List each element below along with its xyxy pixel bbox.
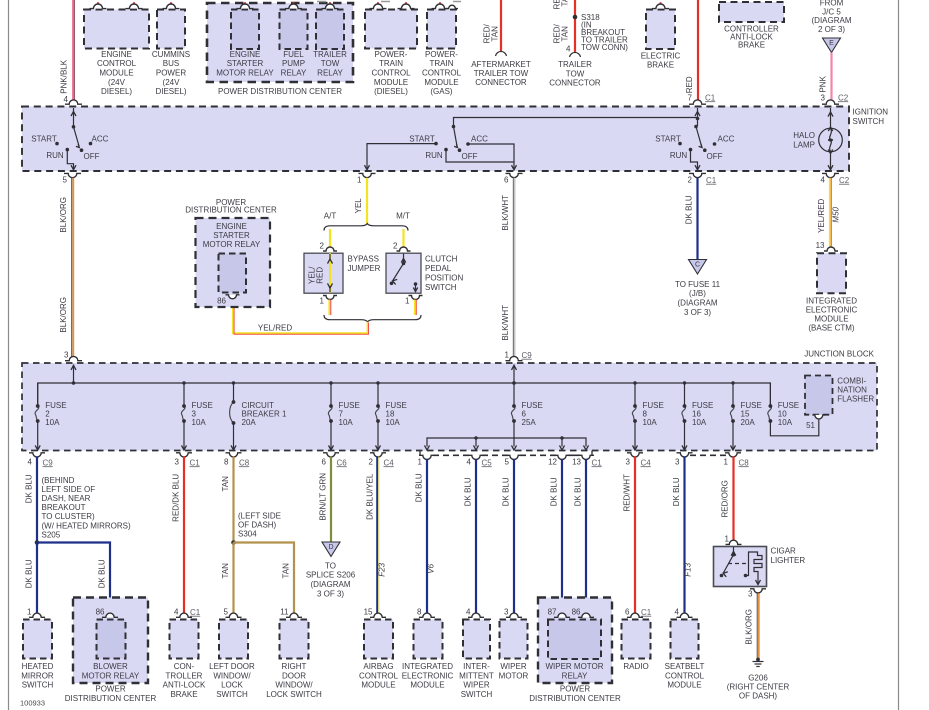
svg-text:1: 1	[725, 534, 730, 543]
page border left	[8, 0, 10, 710]
junction block bottom pin 6 C6 at x=331	[322, 453, 348, 468]
powertrain control module (diesel) box	[365, 2, 417, 97]
fuel pump relay (top PDC)	[280, 2, 308, 77]
svg-text:STARTER: STARTER	[227, 59, 264, 68]
svg-text:CONTROL: CONTROL	[665, 671, 705, 680]
clutch pedal position switch label	[425, 254, 463, 292]
svg-text:RELAY: RELAY	[562, 671, 588, 680]
svg-text:(W/ HEATED MIRRORS): (W/ HEATED MIRRORS)	[42, 521, 132, 530]
svg-text:10A: 10A	[778, 418, 793, 427]
svg-text:WINDOW/: WINDOW/	[213, 671, 251, 680]
svg-text:TAN: TAN	[561, 0, 570, 7]
right door window/lock switch box	[266, 607, 322, 699]
svg-text:SWITCH: SWITCH	[425, 283, 457, 292]
fuse 6 25A	[511, 381, 542, 438]
svg-text:ACC: ACC	[92, 135, 109, 144]
svg-text:JUMPER: JUMPER	[348, 264, 381, 273]
svg-text:MOTOR: MOTOR	[499, 671, 529, 680]
svg-text:SWITCH: SWITCH	[22, 681, 54, 690]
clutch pedal position switch contacts	[390, 254, 418, 293]
cigar lighter pin 1	[725, 534, 742, 544]
svg-text:RADIO: RADIO	[623, 662, 648, 671]
intermittent wiper switch box	[459, 607, 494, 699]
svg-text:DK BLU: DK BLU	[574, 477, 583, 506]
label DK BLU (pin 4 C9)	[25, 474, 34, 503]
label PNK	[819, 75, 828, 92]
svg-text:(RIGHT CENTER: (RIGHT CENTER	[727, 683, 790, 692]
wire DK BLU junction pin 13 C1 to wiper motor relay 86	[585, 459, 587, 615]
svg-text:ENGINE: ENGINE	[230, 50, 261, 59]
aftermarket trailer tow connector label	[471, 60, 531, 87]
wire TAN splice S304 branch to right door switch	[234, 543, 295, 616]
svg-text:LEFT DOOR: LEFT DOOR	[209, 662, 255, 671]
svg-text:3: 3	[64, 350, 69, 359]
wiper motor relay box	[545, 607, 603, 680]
wiper motor box	[499, 607, 529, 680]
svg-text:(DIAGRAM: (DIAGRAM	[311, 580, 351, 589]
svg-text:DISTRIBUTION CENTER: DISTRIBUTION CENTER	[65, 694, 157, 703]
svg-text:2: 2	[369, 457, 374, 466]
svg-text:3: 3	[748, 589, 753, 598]
clutch pedal position switch box	[386, 253, 421, 293]
bypass jumper internal wire	[328, 253, 333, 293]
ignition switch contact set 1 (left)	[31, 108, 108, 170]
heated mirror switch box	[21, 607, 54, 689]
svg-text:TAN: TAN	[491, 26, 500, 42]
svg-text:C1: C1	[190, 458, 201, 467]
svg-text:AIRBAG: AIRBAG	[363, 662, 393, 671]
svg-text:3: 3	[175, 457, 180, 466]
svg-text:DIESEL): DIESEL)	[101, 87, 132, 96]
svg-text:86: 86	[96, 607, 105, 616]
pin 86 label (starter relay)	[217, 297, 226, 306]
engine starter motor relay (top PDC)	[216, 2, 274, 77]
svg-text:C9: C9	[522, 351, 533, 360]
labels BLK/ORG	[59, 197, 68, 333]
svg-text:LAMP: LAMP	[793, 141, 815, 150]
svg-text:C4: C4	[641, 458, 652, 467]
wire RED/WHT junction pin 3 C4 to radio	[634, 457, 636, 616]
svg-text:OF DASH): OF DASH)	[739, 692, 778, 701]
label DK BLU (pin 13 C1)	[574, 477, 583, 506]
junction block bottom pin 1 C8 at x=733	[724, 453, 750, 468]
label BLK/ORG (cigar lighter)	[745, 609, 754, 645]
svg-text:2: 2	[320, 241, 325, 250]
svg-text:ELECTRONIC: ELECTRONIC	[402, 671, 454, 680]
svg-text:CON-: CON-	[174, 662, 195, 671]
wire DK BLU junction pin 1 to IEM	[426, 459, 428, 615]
svg-text:6: 6	[625, 607, 630, 616]
svg-text:BRN/LT GRN: BRN/LT GRN	[319, 473, 328, 521]
wire DK BLU junction pin 4 C9 to splice S205	[36, 457, 38, 543]
svg-text:TOW: TOW	[321, 59, 340, 68]
svg-text:RED/ORG: RED/ORG	[721, 480, 730, 517]
svg-text:MOTOR RELAY: MOTOR RELAY	[203, 240, 261, 249]
svg-text:OFF: OFF	[707, 152, 723, 161]
svg-text:3: 3	[504, 607, 509, 616]
label DK BLU (pin 4 C5)	[464, 477, 473, 506]
svg-text:POSITION: POSITION	[425, 273, 463, 282]
wire BRN/LT GRN junction pin 6 C6 to connector D	[330, 457, 332, 543]
svg-text:C: C	[695, 262, 700, 269]
svg-text:BUS: BUS	[163, 59, 179, 68]
svg-text:ELECTRONIC: ELECTRONIC	[806, 305, 858, 314]
svg-text:BRAKE: BRAKE	[647, 61, 674, 70]
svg-text:TRAILER TOW: TRAILER TOW	[474, 69, 529, 78]
svg-text:WIPER MOTOR: WIPER MOTOR	[545, 662, 603, 671]
wire DK BLU junction pin 12 to wiper motor relay 87	[561, 459, 563, 615]
integrated electronic module (base ctm) box	[806, 253, 858, 332]
power distribution center (middle) box	[185, 198, 277, 307]
ignition pin 5 (bottom)	[63, 173, 81, 184]
ignition switch contact set 2 (middle)	[365, 118, 698, 170]
svg-text:C1: C1	[641, 608, 652, 617]
svg-text:RELAY: RELAY	[317, 69, 343, 78]
svg-text:6: 6	[504, 175, 509, 184]
svg-text:ACC: ACC	[718, 135, 735, 144]
svg-text:CUMMINS: CUMMINS	[152, 50, 190, 59]
svg-text:BLK/WHT: BLK/WHT	[501, 195, 510, 231]
svg-text:4: 4	[675, 607, 680, 616]
fuse 6 distribution sub-bus	[425, 436, 589, 450]
svg-text:BRAKE: BRAKE	[738, 41, 765, 50]
label YEL/RED inside bypass jumper	[308, 266, 325, 284]
wire DK BLU splice S205 branch to blower motor relay	[37, 543, 110, 616]
bypass jumper pin 2	[320, 241, 337, 251]
svg-text:4: 4	[467, 457, 472, 466]
svg-text:RUN: RUN	[46, 151, 64, 160]
svg-text:MODULE: MODULE	[410, 681, 444, 690]
svg-text:4: 4	[466, 607, 471, 616]
svg-text:C1: C1	[190, 608, 201, 617]
svg-text:MODULE: MODULE	[814, 314, 848, 323]
svg-text:RUN: RUN	[670, 151, 688, 160]
ignition switch box	[22, 107, 888, 172]
svg-text:(24V: (24V	[163, 78, 181, 87]
svg-text:BLK/WHT: BLK/WHT	[501, 305, 510, 341]
svg-text:BLK/ORG: BLK/ORG	[59, 297, 68, 333]
svg-text:4: 4	[64, 95, 69, 104]
svg-text:FLASHER: FLASHER	[837, 394, 874, 403]
junction block pin 3 (top)	[64, 350, 82, 360]
svg-text:10A: 10A	[339, 418, 354, 427]
svg-text:MOTOR RELAY: MOTOR RELAY	[216, 69, 274, 78]
wire BLK/ORG ignition pin5 to junction pin3	[72, 178, 74, 359]
labels BLK/WHT	[501, 195, 510, 341]
svg-text:BRAKE: BRAKE	[170, 690, 197, 699]
svg-text:C5: C5	[482, 458, 493, 467]
svg-text:CIGAR: CIGAR	[771, 546, 797, 555]
svg-text:MODULE: MODULE	[424, 78, 458, 87]
svg-text:POWER: POWER	[95, 685, 125, 694]
wire DK BLU/YEL junction pin 2 C4 to airbag module	[377, 457, 379, 616]
svg-text:POWER-: POWER-	[375, 50, 408, 59]
svg-text:PEDAL: PEDAL	[425, 264, 452, 273]
svg-text:V6: V6	[427, 563, 436, 573]
label YEL/RED (to relay)	[258, 323, 292, 332]
svg-text:TRAILER: TRAILER	[558, 60, 592, 69]
svg-text:PNK: PNK	[819, 75, 828, 92]
svg-text:PNK/BLK: PNK/BLK	[60, 59, 69, 93]
pin 4 trailer tow connector	[566, 44, 571, 53]
clutch switch pin 1	[405, 296, 422, 306]
svg-text:(DIESEL): (DIESEL)	[374, 87, 408, 96]
from J/C 5 note	[812, 0, 852, 34]
svg-text:CLUTCH: CLUTCH	[425, 254, 458, 263]
svg-text:MOTOR RELAY: MOTOR RELAY	[82, 671, 140, 680]
svg-text:F23: F23	[378, 562, 387, 576]
svg-text:STARTER: STARTER	[213, 231, 250, 240]
airbag control module box	[359, 607, 399, 689]
svg-text:DK BLU: DK BLU	[25, 559, 34, 588]
svg-text:3 OF 3): 3 OF 3)	[317, 590, 344, 599]
svg-text:4: 4	[28, 457, 33, 466]
svg-text:2: 2	[688, 175, 693, 184]
svg-text:TO FUSE 11: TO FUSE 11	[675, 280, 721, 289]
svg-text:RED: RED	[316, 267, 325, 284]
wire DK BLU junction pin 3 to seatbelt control module	[683, 457, 685, 616]
wire RED to ignition switch pin 7	[697, 0, 699, 102]
trailer tow relay (top PDC)	[313, 2, 347, 78]
triangle connector E	[823, 38, 841, 53]
svg-text:10A: 10A	[692, 418, 707, 427]
radio box	[622, 607, 652, 671]
svg-text:POWER DISTRIBUTION CENTER: POWER DISTRIBUTION CENTER	[218, 87, 342, 96]
svg-text:11: 11	[280, 607, 289, 616]
svg-text:SWITCH: SWITCH	[461, 690, 493, 699]
cummins bus power box	[152, 2, 190, 96]
svg-text:OFF: OFF	[84, 152, 100, 161]
fuse 16 10A	[682, 381, 713, 450]
cigar lighter pin 3	[748, 589, 766, 599]
trailer tow connector label	[549, 60, 601, 87]
svg-text:C2: C2	[839, 176, 850, 185]
junction block bottom pin 5 at x=514	[505, 455, 522, 466]
svg-text:1: 1	[357, 175, 362, 184]
wire YEL stub to bypass jumper pin 2	[329, 229, 331, 249]
label DK BLU/YEL	[366, 473, 375, 520]
combination flasher box	[805, 376, 874, 419]
svg-text:J/C 5: J/C 5	[822, 7, 841, 16]
svg-text:SWITCH: SWITCH	[853, 117, 885, 126]
svg-text:MODULE: MODULE	[667, 681, 701, 690]
wire YEL/RED from brace to starter relay pin 86	[233, 297, 369, 334]
svg-text:7: 7	[688, 93, 693, 102]
bus entry from pin 1 C9	[512, 365, 517, 385]
circuit label F23	[378, 562, 387, 576]
svg-text:SWITCH: SWITCH	[216, 690, 248, 699]
svg-text:HEATED: HEATED	[22, 662, 54, 671]
fuse 3 10A	[181, 381, 212, 450]
svg-text:51: 51	[806, 421, 815, 430]
svg-text:ENGINE: ENGINE	[216, 222, 247, 231]
labels YEL/RED M50	[817, 198, 841, 232]
svg-text:1: 1	[27, 607, 32, 616]
wire YEL stub to clutch switch pin 2	[402, 229, 404, 249]
svg-text:TAN: TAN	[561, 26, 570, 42]
svg-text:LEFT SIDE OF: LEFT SIDE OF	[42, 485, 96, 494]
power distribution center (bottom left) box	[65, 598, 157, 704]
svg-text:DISTRIBUTION CENTER: DISTRIBUTION CENTER	[529, 694, 621, 703]
svg-text:3: 3	[821, 93, 826, 102]
junction block bottom pin 3 C4 at x=635	[626, 453, 652, 468]
label RED	[685, 76, 694, 93]
S318 note text	[581, 13, 628, 52]
wire DK BLU splice S205 to heated mirror switch	[36, 543, 38, 616]
bypass jumper label	[348, 254, 381, 273]
svg-text:S205: S205	[42, 530, 61, 539]
labels DK BLU (S205 branches)	[25, 559, 107, 588]
fuse 8 10A	[632, 381, 663, 450]
svg-text:MITTENT: MITTENT	[459, 671, 494, 680]
bypass jumper box	[304, 253, 343, 293]
svg-text:OF DASH): OF DASH)	[238, 520, 277, 529]
S304 location note	[238, 511, 281, 538]
svg-text:6: 6	[322, 457, 327, 466]
svg-text:RIGHT: RIGHT	[282, 662, 307, 671]
controller anti-lock brake box	[719, 2, 784, 50]
A/T M/T split brace	[324, 211, 410, 230]
wire DK BLU ignition pin 2 C1 to connector C	[696, 178, 698, 260]
wire YEL from ignition pin1	[366, 178, 368, 224]
wire RED/TAN to trailer tow connector	[570, 0, 581, 57]
splice S304	[231, 540, 236, 545]
svg-text:START: START	[31, 135, 57, 144]
svg-text:C1: C1	[592, 458, 603, 467]
svg-text:YEL/RED: YEL/RED	[258, 323, 292, 332]
svg-text:CONTROL: CONTROL	[371, 69, 411, 78]
svg-text:SPLICE S206: SPLICE S206	[306, 571, 356, 580]
page border right	[898, 0, 900, 710]
svg-text:86: 86	[217, 297, 226, 306]
svg-text:TOW: TOW	[566, 69, 585, 78]
junction block pin 1 C9 (top)	[505, 350, 533, 360]
svg-text:DK BLU/YEL: DK BLU/YEL	[366, 473, 375, 520]
wire TAN junction pin 8 C8 to splice S304	[232, 457, 234, 543]
svg-text:D: D	[328, 544, 333, 551]
wire TAN splice S304 to left door switch	[232, 543, 234, 616]
svg-text:15: 15	[364, 607, 373, 616]
svg-text:DASH, NEAR: DASH, NEAR	[42, 494, 91, 503]
engine control module box (24V diesel)	[84, 2, 149, 96]
junction block bottom pin 4 C5 at x=476	[467, 455, 493, 467]
integrated electronic module box (bottom)	[402, 607, 454, 689]
left door window/lock switch box	[209, 607, 255, 699]
svg-text:C1: C1	[705, 93, 716, 102]
label DK BLU (pin 5)	[502, 477, 511, 506]
svg-text:(BEHIND: (BEHIND	[42, 476, 75, 485]
junction block bottom pin 12 at x=562	[548, 455, 570, 466]
circuit breaker 1 20A	[230, 381, 287, 450]
clutch switch pin 2	[393, 241, 410, 251]
svg-text:(LEFT SIDE: (LEFT SIDE	[238, 511, 281, 520]
svg-text:1: 1	[320, 296, 325, 305]
cigar lighter label	[771, 546, 806, 565]
junction block bottom pin 2 C4 at x=378	[369, 453, 395, 468]
svg-text:DK BLU: DK BLU	[502, 477, 511, 506]
junction block main bus	[38, 383, 771, 406]
svg-text:CONTROL: CONTROL	[422, 69, 462, 78]
svg-text:MODULE: MODULE	[99, 69, 133, 78]
svg-text:(DIAGRAM: (DIAGRAM	[678, 299, 718, 308]
svg-text:(J/B): (J/B)	[689, 289, 706, 298]
pin 51 label	[806, 421, 815, 430]
label RED/ORG	[721, 480, 730, 517]
svg-text:TRAIN: TRAIN	[430, 59, 454, 68]
svg-text:4: 4	[821, 175, 826, 184]
svg-text:4: 4	[566, 44, 571, 53]
svg-text:RED: RED	[685, 76, 694, 93]
svg-text:13: 13	[816, 241, 825, 250]
seatbelt control module box	[665, 607, 705, 689]
labels TAN (S304 branches)	[221, 563, 291, 579]
svg-text:(24V: (24V	[108, 78, 126, 87]
svg-text:CONNECTOR: CONNECTOR	[475, 78, 527, 87]
svg-text:12: 12	[548, 457, 557, 466]
svg-text:TAN: TAN	[282, 563, 291, 579]
svg-text:C6: C6	[337, 458, 348, 467]
label RED/WHT	[623, 474, 632, 511]
label DK BLU (pin 3)	[672, 477, 681, 506]
svg-text:DOOR: DOOR	[282, 671, 306, 680]
cigar lighter box	[714, 547, 767, 587]
svg-text:(DIAGRAM: (DIAGRAM	[812, 16, 852, 25]
label YEL	[354, 198, 363, 214]
svg-text:INTEGRATED: INTEGRATED	[806, 296, 857, 305]
junction block box	[22, 349, 877, 450]
svg-text:ANTI-LOCK: ANTI-LOCK	[163, 681, 206, 690]
svg-text:C9: C9	[43, 458, 54, 467]
svg-text:MODULE: MODULE	[361, 681, 395, 690]
svg-text:20A: 20A	[741, 418, 756, 427]
svg-text:M50: M50	[832, 206, 841, 222]
wire PNK/BLK to ignition switch pin 4	[73, 0, 75, 102]
svg-text:TO: TO	[325, 561, 336, 570]
fuse 10 10A	[768, 383, 819, 436]
svg-text:OFF: OFF	[462, 152, 478, 161]
wire YEL/RED ignition pin 4 C2 to IEM pin 13	[830, 178, 832, 249]
wire BLK/ORG cigar lighter to ground G206	[757, 593, 759, 658]
svg-text:WIPER: WIPER	[463, 681, 489, 690]
ignition pin 7 C1 (top)	[688, 93, 716, 104]
svg-text:POWER: POWER	[156, 69, 186, 78]
fuse 2 10A	[35, 383, 66, 450]
ignition pin 4 C2 (bottom)	[821, 173, 850, 184]
svg-text:FUEL: FUEL	[283, 50, 304, 59]
svg-text:1: 1	[405, 296, 410, 305]
svg-text:87: 87	[548, 607, 557, 616]
ignition pin 3 C2 (top)	[821, 93, 849, 104]
svg-text:NATION: NATION	[837, 385, 867, 394]
svg-text:RELAY: RELAY	[281, 69, 307, 78]
ignition pin 1 (bottom)	[357, 173, 375, 184]
svg-text:RED/DK BLU: RED/DK BLU	[172, 474, 181, 522]
svg-text:BLK/ORG: BLK/ORG	[59, 197, 68, 233]
svg-text:F13: F13	[684, 562, 693, 576]
svg-text:TO CLUSTER): TO CLUSTER)	[42, 512, 96, 521]
svg-text:LIGHTER: LIGHTER	[771, 556, 806, 565]
label RED/TAN (aftermarket)	[483, 23, 500, 43]
svg-text:BYPASS: BYPASS	[348, 254, 379, 263]
svg-text:MODULE: MODULE	[374, 78, 408, 87]
ignition pin 6 (bottom)	[504, 173, 522, 184]
svg-text:DK BLU: DK BLU	[98, 559, 107, 588]
ground G206	[727, 658, 790, 701]
power distribution center (bottom right) box	[529, 598, 621, 704]
label DK BLU (pin 1)	[415, 473, 424, 502]
svg-text:20A: 20A	[242, 418, 257, 427]
to splice S206 note	[306, 561, 356, 598]
